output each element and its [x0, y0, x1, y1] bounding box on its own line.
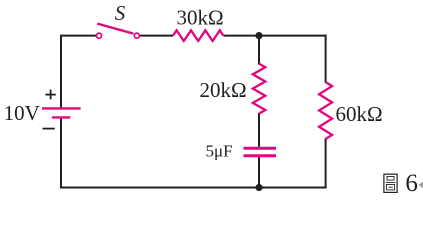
switch S contact circle left [97, 33, 102, 38]
resistor 60k zigzag [319, 82, 332, 139]
wire middle branch lower: capacitor to bottom junction [258, 157, 260, 188]
resistor R 30k zigzag [173, 30, 223, 41]
capacitor C 5uF top plate [244, 147, 277, 150]
capacitor C 5uF bottom plate [244, 154, 277, 157]
wire left side lower: battery down to bottom corner [60, 118, 62, 189]
wire top-left: left corner to switch [61, 35, 96, 37]
svg-text:6: 6 [405, 170, 418, 197]
node junction top (middle branch) [255, 32, 262, 39]
wire: 30k resistor to top-right corner [224, 35, 327, 37]
wire bottom [60, 187, 327, 189]
svg-text:30kΩ: 30kΩ [176, 6, 223, 30]
wire left side upper: corner down to battery [60, 35, 62, 108]
switch S lever arm [97, 24, 133, 34]
figure label 圖 (drawn glyph) [384, 174, 397, 192]
svg-text:10V: 10V [4, 101, 40, 125]
switch S contact circle right [134, 33, 139, 38]
wire right side upper: top corner to 60k [325, 35, 327, 83]
wire middle: 20k to capacitor [258, 113, 260, 147]
anchor arrow mark [419, 182, 423, 189]
wire middle branch upper: junction to 20k [258, 36, 260, 65]
battery V1 long positive plate [42, 107, 81, 109]
svg-text:60kΩ: 60kΩ [335, 102, 382, 126]
wire right side lower: 60k to bottom corner [325, 139, 327, 189]
node junction bottom (middle branch) [255, 184, 262, 191]
svg-text:20kΩ: 20kΩ [199, 78, 246, 102]
svg-text:5μF: 5μF [205, 142, 232, 161]
battery plus sign [45, 90, 55, 100]
battery V1 short negative plate [52, 116, 70, 118]
wire: switch right circle to 30k resistor [140, 35, 173, 37]
resistor 20k zigzag [253, 64, 265, 114]
battery minus sign [43, 128, 55, 130]
svg-text:S: S [115, 1, 126, 25]
